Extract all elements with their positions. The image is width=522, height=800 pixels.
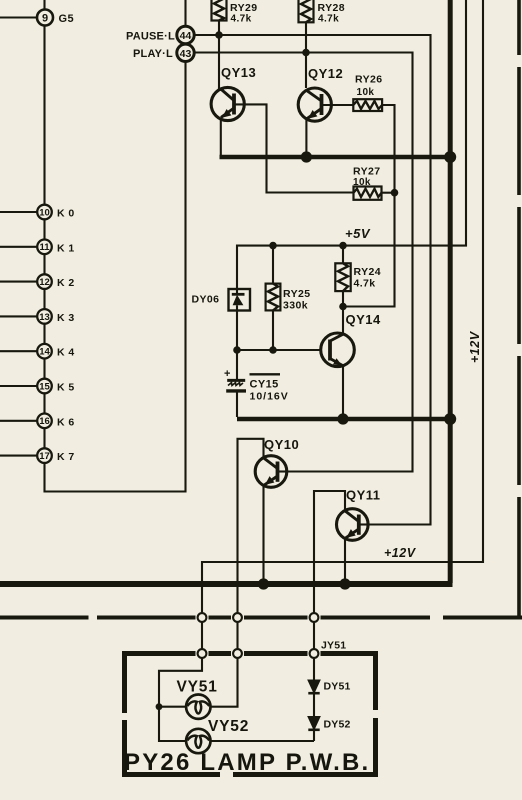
svg-text:RY28: RY28 (318, 2, 345, 14)
svg-text:+12V: +12V (384, 546, 417, 560)
junction RY24 top (339, 242, 347, 250)
resistor RY25 330k (272, 246, 274, 350)
svg-text:43: 43 (180, 48, 192, 60)
diode DY52 (308, 717, 319, 729)
wire QY12 base to RY26 (322, 104, 354, 106)
svg-text:15: 15 (39, 381, 50, 392)
node pin 44 PAUSE-L (177, 26, 194, 43)
junction RY29/PAUSE-L (215, 31, 223, 39)
wire pin1 +12V to lamps common (159, 658, 202, 741)
svg-text:K3: K3 (57, 312, 78, 324)
svg-text:QY11: QY11 (346, 488, 381, 503)
resistor RY26 10k (353, 99, 382, 111)
svg-text:RY26: RY26 (355, 74, 382, 86)
wire VY51 to pin2 (211, 658, 238, 707)
wire RY28 to QY12 collector (305, 22, 307, 88)
wire stub K7 (0, 455, 37, 457)
transistor QY11 (337, 509, 369, 541)
svg-text:11: 11 (39, 242, 50, 253)
lamp VY52 (186, 729, 210, 753)
wire pin3 JY51 to diodes (313, 658, 315, 741)
svg-text:RY24: RY24 (354, 266, 381, 278)
wire PAUSE-L to QY11 base (194, 35, 431, 525)
svg-text:G5: G5 (59, 13, 75, 25)
junction RY27/RY26 node (391, 189, 399, 197)
svg-text:JY51: JY51 (321, 640, 346, 652)
wire QY14 collector up (342, 307, 344, 335)
svg-text:QY10: QY10 (264, 437, 299, 452)
wire QY14 emitter down to bus (342, 366, 344, 417)
svg-text:K5: K5 (57, 382, 78, 394)
wire bottom U connecting K-bus to PLAY/PAUSE bus (45, 62, 186, 492)
node 14 (K4) (37, 344, 52, 359)
node feedthrough JY51 on border (310, 613, 319, 622)
node 11 (K1) (37, 240, 52, 255)
svg-text:14: 14 (39, 347, 50, 358)
svg-text:QY14: QY14 (346, 312, 382, 327)
svg-text:9: 9 (42, 13, 48, 25)
page border right dashed (517, 0, 521, 620)
lamp VY51 (186, 695, 210, 719)
wire VY52 to diode DY52 (211, 740, 315, 742)
node pin1 on box edge (198, 649, 207, 658)
svg-text:10k: 10k (357, 87, 375, 98)
svg-text:12: 12 (39, 277, 50, 288)
svg-text:10/16V: 10/16V (250, 391, 289, 403)
svg-text:4.7k: 4.7k (231, 14, 252, 25)
wire +5V rail from top line (237, 0, 466, 289)
svg-text:17: 17 (39, 451, 50, 462)
node feedthrough VY51 on border (233, 613, 242, 622)
junction lamps common (156, 703, 163, 710)
svg-text:+12V: +12V (468, 330, 482, 363)
svg-text:PAUSE·L: PAUSE·L (126, 31, 175, 43)
wire stub K5 (0, 385, 37, 387)
wire lamps common branch to VY51 (159, 706, 186, 708)
wire stub G5 (0, 16, 38, 18)
wire stub K1 (0, 246, 37, 248)
junction RY25/base rail (269, 346, 277, 354)
svg-text:16: 16 (39, 416, 50, 427)
resistor RY28 4.7k (299, 0, 314, 22)
node feedthrough +12V on border (198, 613, 207, 622)
wire +12V feed from top to lamp board (202, 0, 483, 651)
node 15 (K5) (37, 379, 52, 394)
svg-text:+5V: +5V (345, 226, 371, 241)
svg-text:VY52: VY52 (208, 718, 249, 735)
svg-text:13: 13 (39, 312, 50, 323)
wire QY11 base stub (359, 523, 368, 525)
node pin2 on box edge (233, 649, 242, 658)
wire vertical above pin 44 (184, 0, 186, 27)
transistor QY14 (321, 333, 355, 367)
wire RY27 right (382, 192, 395, 194)
wire QY13 base to RY27 (234, 104, 354, 192)
svg-text:CY15: CY15 (250, 379, 279, 391)
svg-text:K4: K4 (57, 347, 78, 359)
svg-text:4.7k: 4.7k (354, 278, 376, 290)
svg-text:K7: K7 (57, 451, 78, 463)
transistor QY12 (298, 88, 331, 121)
label CY15 overline (250, 373, 281, 375)
svg-text:10: 10 (39, 207, 50, 218)
wire RY26 right down to QY14 collector node (344, 105, 395, 307)
node pin 43 PLAY-L (177, 44, 194, 61)
svg-text:K1: K1 (57, 242, 78, 254)
svg-text:DY52: DY52 (324, 719, 351, 731)
wire stub K0 (0, 211, 37, 213)
wire QY14 base rail (237, 349, 321, 351)
junction bus to thick vertical (444, 151, 456, 163)
wire RY29 to QY13 collector (218, 21, 220, 90)
svg-text:K6: K6 (57, 416, 78, 428)
diode DY06 (229, 289, 251, 311)
wire left bus vertical (43, 0, 45, 463)
transistor QY13 (211, 87, 244, 120)
junction RY28/PLAY-L (302, 49, 310, 57)
svg-text:RY25: RY25 (283, 288, 310, 300)
wire DY06 bottom to QY14 base rail (236, 311, 238, 351)
wire thick ground bus upper (220, 155, 453, 160)
node 17 (K7) (37, 448, 52, 463)
wire thick ground bus middle (237, 417, 452, 421)
lamp board PY26 dashed box (122, 651, 378, 777)
wire thick vertical ground (448, 0, 453, 583)
wire PLAY-L to QY10 base (194, 53, 413, 472)
wire QY10 base stub (278, 470, 288, 472)
svg-text:DY06: DY06 (192, 294, 220, 306)
junction DY06/base rail (233, 346, 241, 354)
svg-text:330k: 330k (283, 300, 308, 312)
svg-text:10k: 10k (353, 177, 371, 188)
svg-text:VY51: VY51 (177, 679, 218, 696)
svg-text:PLAY·L: PLAY·L (133, 48, 173, 60)
wire QY11 collector to lamp diode pin JY51 (314, 491, 345, 651)
junction QY10 emitter on bus (258, 578, 269, 589)
wire stub K3 (0, 315, 37, 317)
svg-text:QY13: QY13 (221, 65, 256, 80)
node 13 (K3) (37, 309, 52, 324)
node 12 (K2) (37, 274, 52, 289)
svg-text:QY12: QY12 (308, 66, 343, 81)
wire stub K4 (0, 350, 37, 352)
svg-text:DY51: DY51 (324, 681, 351, 693)
svg-text:44: 44 (180, 30, 192, 42)
capacitor CY15 10/16V electrolytic (236, 350, 238, 380)
resistor RY29 4.7k (212, 0, 227, 21)
node 9 (G5) (37, 10, 53, 26)
svg-text:K2: K2 (57, 277, 78, 289)
wire QY10 collector to lamp VY51 pin (238, 439, 264, 651)
wire stub K2 (0, 281, 37, 283)
svg-text:+: + (224, 368, 230, 380)
page border bottom dashed (0, 616, 522, 620)
junction RY24 bottom / QY14 collector (339, 303, 347, 311)
svg-text:PY26 LAMP P.W.B.: PY26 LAMP P.W.B. (124, 749, 370, 776)
node pin3 JY51 on box edge (310, 649, 319, 658)
transistor QY10 (255, 456, 287, 488)
junction RY25 top (269, 242, 277, 250)
node 10 (K0) (37, 205, 52, 220)
wire QY11 emitter to bus (344, 538, 346, 584)
svg-text:4.7k: 4.7k (318, 14, 339, 25)
diode DY51 (308, 680, 319, 692)
wire stub K6 (0, 420, 37, 422)
svg-text:RY29: RY29 (230, 2, 257, 14)
resistor RY24 4.7k (342, 246, 344, 307)
svg-text:RY27: RY27 (353, 166, 380, 178)
wire QY13 emitter to bus (220, 118, 222, 156)
junction QY11 emitter on bus (339, 578, 350, 589)
junction QY14 emitter on bus (337, 413, 348, 424)
svg-text:K0: K0 (57, 208, 78, 220)
junction QY12 emitter on bus (301, 151, 312, 162)
junction bus middle to thick vertical (444, 413, 456, 425)
wire QY12 emitter to bus (305, 119, 307, 156)
wire thick ground bus lower (0, 581, 453, 587)
resistor RY27 10k (354, 187, 382, 200)
node 16 (K6) (37, 414, 52, 429)
wire QY10 emitter to bus (262, 485, 264, 584)
